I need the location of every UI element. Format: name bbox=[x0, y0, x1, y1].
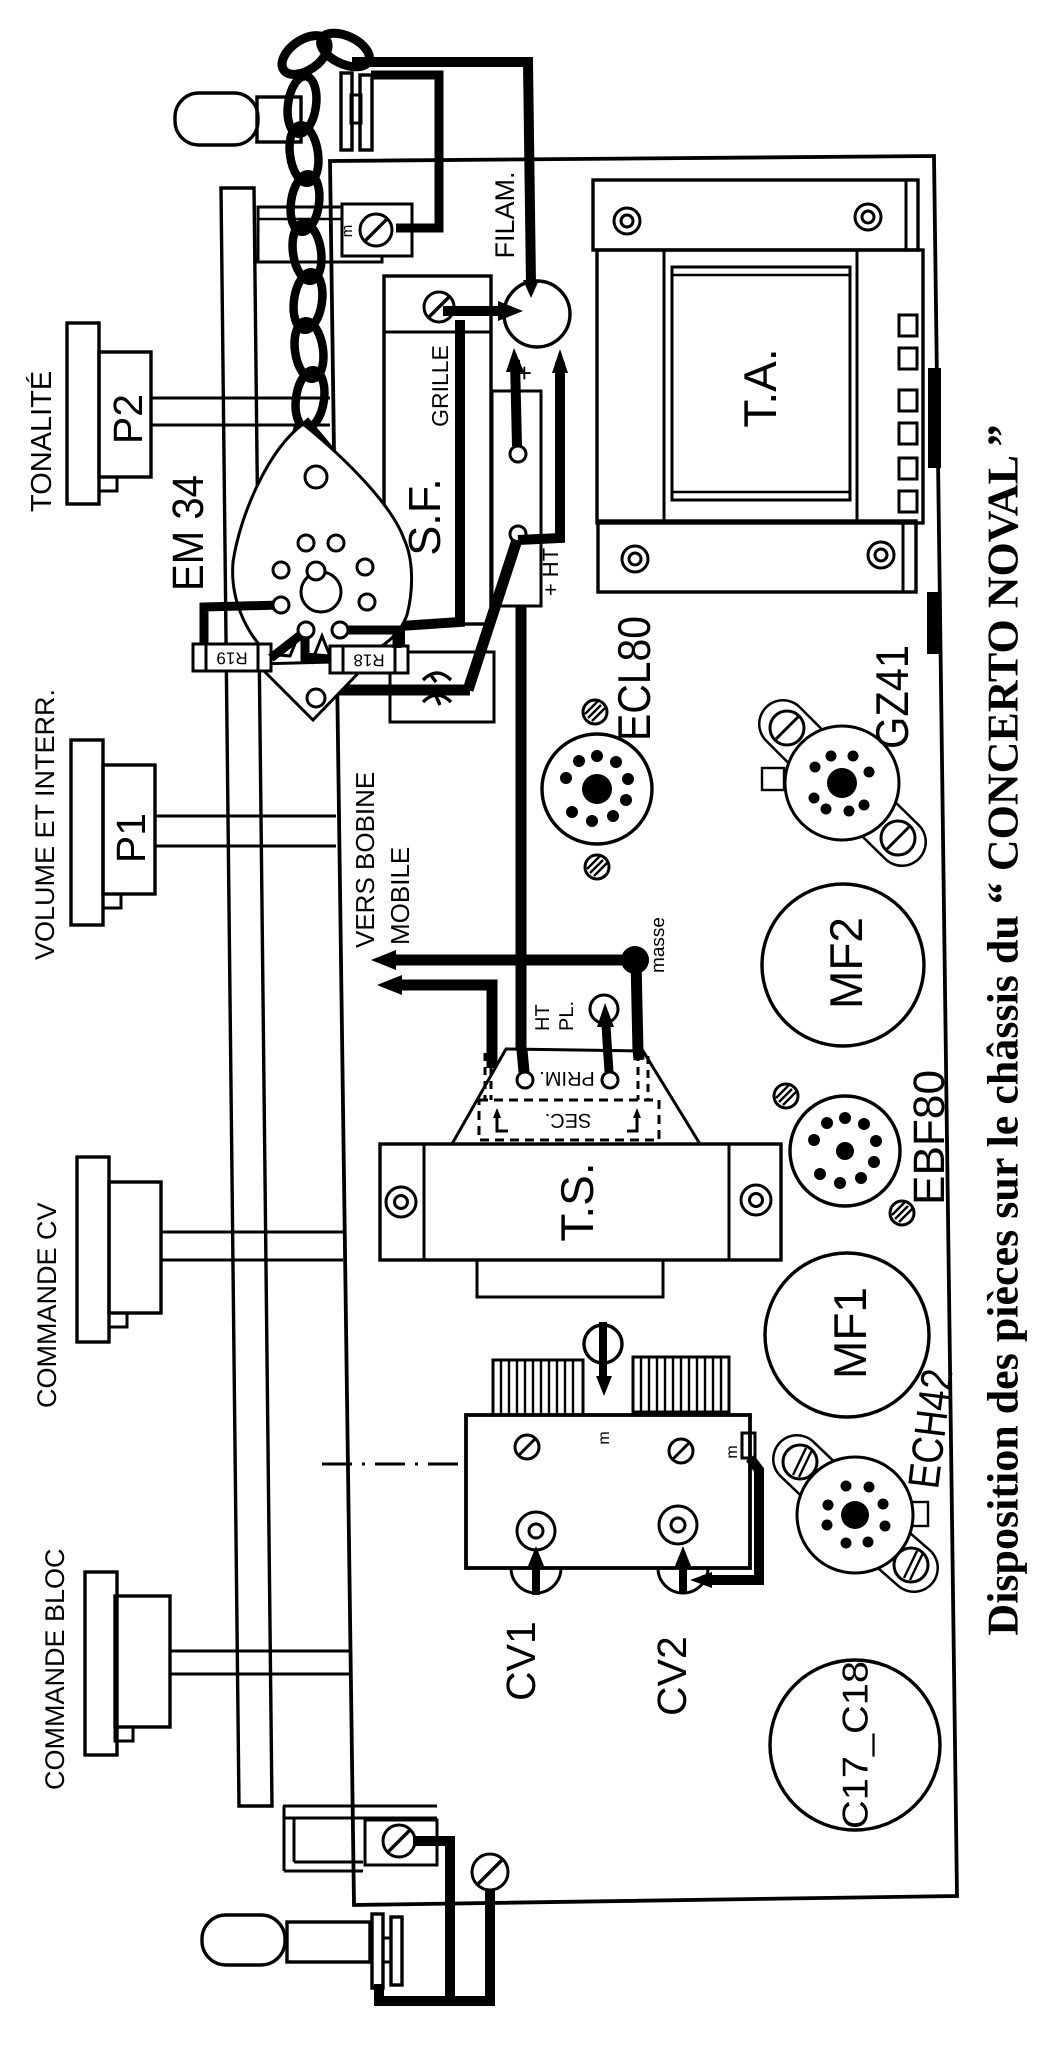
terminal box m (top) bbox=[342, 204, 412, 256]
C17-C18 capacitor bbox=[770, 1660, 940, 1830]
svg-text:COMMANDE BLOC: COMMANDE BLOC bbox=[40, 1548, 70, 1790]
svg-text:T.S.: T.S. bbox=[551, 1162, 603, 1241]
svg-text:VOLUME ET INTERR.: VOLUME ET INTERR. bbox=[30, 689, 60, 960]
pilot lamp bulb (bottom) bbox=[202, 1915, 285, 1965]
svg-text:T.A.: T.A. bbox=[734, 348, 786, 427]
svg-text:P1: P1 bbox=[108, 813, 154, 863]
thick arrow + up bbox=[515, 360, 517, 446]
terminal box screw (bottom) bbox=[365, 1820, 437, 1865]
sec arrow left bbox=[493, 1108, 508, 1131]
thick wire from chassis screw bbox=[452, 1890, 490, 2001]
wire EM34 pin to R18 right bbox=[340, 630, 397, 648]
potentiometer P2 bbox=[67, 323, 330, 504]
CV foot 2 with arrow bbox=[658, 1546, 708, 1593]
dash-dot axis line bbox=[322, 1463, 466, 1466]
potentiometer COMMANDE CV bbox=[77, 1157, 343, 1342]
tube socket GZ41 bbox=[762, 711, 915, 855]
svg-text:SEC.: SEC. bbox=[545, 1109, 592, 1131]
wire from twisted pair to EM34 pin right bbox=[305, 420, 367, 562]
HT wire into PRIM terminal bbox=[522, 1050, 524, 1072]
plug discs (top) bbox=[341, 73, 372, 150]
terminal HT bbox=[510, 526, 526, 542]
svg-text:MOBILE: MOBILE bbox=[385, 847, 415, 945]
masse wire down bbox=[636, 960, 638, 1051]
CV foot 1 with arrow bbox=[511, 1546, 561, 1595]
svg-text:PRIM.: PRIM. bbox=[539, 1067, 595, 1089]
svg-text:m: m bbox=[596, 1431, 613, 1444]
svg-text:COMMANDE CV: COMMANDE CV bbox=[32, 1202, 62, 1408]
T.A. transformer bbox=[593, 180, 923, 592]
thick diagonal wire HT terminal to bus bbox=[468, 540, 517, 690]
svg-text:R19: R19 bbox=[216, 649, 247, 668]
wire R19 to EM34 pin bbox=[271, 633, 303, 658]
potentiometer COMMANDE BLOC bbox=[85, 1572, 350, 1755]
resistor R19 bbox=[193, 644, 271, 671]
chassis screw (bottom) bbox=[472, 1854, 508, 1890]
twisted pair loops (top) bbox=[275, 26, 374, 82]
twisted pair wire bbox=[284, 74, 328, 429]
plug discs (bottom) bbox=[372, 1914, 402, 1988]
svg-text:MF1: MF1 bbox=[824, 1287, 876, 1379]
chassis outline bbox=[330, 156, 957, 1905]
svg-text:m: m bbox=[724, 1445, 741, 1458]
thick bus wire to EM34 bbox=[307, 653, 470, 690]
front rail bar bbox=[221, 188, 272, 1806]
svg-text:m: m bbox=[339, 225, 356, 238]
wire EM34 pin to R19 bbox=[204, 605, 281, 644]
svg-text:EBF80: EBF80 bbox=[905, 1070, 954, 1205]
terminal + bbox=[510, 446, 526, 462]
scan blotch on edge bbox=[928, 368, 941, 468]
thick arrow +HT up bbox=[518, 362, 560, 540]
thick wire inside S.F. down to R18 bbox=[400, 320, 460, 648]
bottom mounting bracket bbox=[283, 1806, 437, 1871]
sec arrow right bbox=[627, 1108, 641, 1131]
svg-text:C17_C18: C17_C18 bbox=[835, 1661, 876, 1829]
svg-text:EM 34: EM 34 bbox=[164, 475, 213, 591]
svg-text:HT: HT bbox=[532, 1004, 554, 1031]
svg-text:+: + bbox=[509, 365, 539, 380]
resistor R18 bbox=[330, 646, 408, 673]
thick wire vers bobine 1 with arrow bbox=[371, 950, 635, 970]
S.F. bottom plate bbox=[390, 652, 494, 722]
tube socket EBF80 bbox=[774, 1084, 914, 1225]
SEC dashed box bbox=[479, 1100, 659, 1140]
T.S. bottom tab bbox=[477, 1260, 663, 1297]
m tab and wire CV2 bbox=[690, 1433, 759, 1588]
lamp socket (top) bbox=[257, 97, 301, 142]
svg-text:CV1: CV1 bbox=[498, 1621, 544, 1701]
svg-text:MF2: MF2 bbox=[820, 917, 872, 1009]
filament circle bbox=[504, 281, 570, 347]
thick wire bottom screw loop bbox=[379, 1841, 450, 2001]
terminal PRIM right (PL) bbox=[602, 1072, 618, 1088]
svg-text:P2: P2 bbox=[105, 394, 151, 444]
thick wire plug to filament circle bbox=[352, 62, 531, 284]
thick HT wire down to PRIM bbox=[516, 606, 527, 1069]
svg-text:FILAM.: FILAM. bbox=[490, 171, 520, 258]
PL terminal circle bbox=[590, 995, 618, 1023]
T.S. terminal cover trapezoid bbox=[452, 1049, 700, 1144]
tuning capacitor CV block bbox=[466, 1415, 750, 1568]
EM34 pins bbox=[273, 535, 375, 707]
svg-text:masse: masse bbox=[648, 917, 669, 973]
thick arrow PRIM to PL bbox=[597, 1003, 614, 1072]
svg-text:+ HT: + HT bbox=[538, 548, 563, 596]
lamination tabs bbox=[899, 315, 917, 512]
T.S. transformer can bbox=[380, 1144, 781, 1260]
svg-text:VERS BOBINE: VERS BOBINE bbox=[350, 772, 380, 948]
svg-text:GRILLE: GRILLE bbox=[427, 345, 453, 427]
solder lug marks bbox=[423, 673, 451, 682]
svg-text:ECL80: ECL80 bbox=[608, 616, 660, 741]
trimmer bank 2 bbox=[633, 1357, 729, 1412]
lamp socket (bottom) bbox=[287, 1922, 370, 1962]
svg-text:GZ41: GZ41 bbox=[866, 645, 918, 749]
EM34 socket plate bbox=[233, 424, 412, 720]
svg-text:R18: R18 bbox=[353, 651, 384, 670]
trimmer bank 1 bbox=[493, 1360, 583, 1415]
pilot lamp bulb (top) bbox=[175, 93, 258, 145]
potentiometer P1 bbox=[71, 740, 336, 925]
label VERS BOBINE MOBILE bbox=[350, 772, 415, 948]
tube socket ECL80 bbox=[542, 700, 652, 879]
S.F. shield can bbox=[384, 276, 491, 624]
MF2 transformer bbox=[762, 884, 924, 1046]
top mounting bracket bbox=[258, 207, 382, 262]
svg-text:Disposition des pièces sur le: Disposition des pièces sur le châssis du… bbox=[979, 424, 1028, 1635]
svg-text:TONALITÉ: TONALITÉ bbox=[25, 371, 58, 512]
MF1 transformer bbox=[765, 1253, 929, 1417]
terminal box right of S.F. bbox=[492, 391, 541, 606]
tube socket ECH42 bbox=[783, 1445, 928, 1582]
masse junction dot bbox=[621, 946, 649, 974]
thick wire plug to m screw bbox=[371, 75, 439, 228]
CV shaft screw bbox=[584, 1322, 622, 1396]
wire notch to R18 bbox=[305, 633, 330, 659]
thick arrow S.F. screw to filament bbox=[443, 306, 508, 316]
wire from twisted pair to EM34 pin left bbox=[268, 426, 298, 535]
thick wire vers bobine 2 with arrow bbox=[377, 975, 492, 1068]
dashed hidden wires bbox=[490, 1053, 493, 1100]
svg-text:CV2: CV2 bbox=[649, 1636, 695, 1716]
masse wire into trapezoid bbox=[638, 1049, 639, 1060]
svg-text:PL.: PL. bbox=[556, 1001, 578, 1031]
terminal PRIM left (HT) bbox=[517, 1072, 533, 1088]
